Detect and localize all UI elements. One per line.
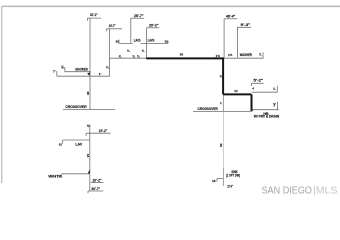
svg-text:¾: ¾ [142, 49, 145, 53]
svg-text:¾: ¾ [127, 49, 130, 53]
svg-text:t.: t. [259, 52, 261, 56]
dim 10'-2" upper line [86, 133, 111, 136]
svg-text:S|: S| [59, 143, 62, 147]
svg-text:9'-3": 9'-3" [241, 23, 251, 27]
dim 30'-7" bottom line [88, 191, 103, 193]
svg-text:(1 OPT DW): (1 OPT DW) [226, 174, 240, 178]
main thin run [110, 57, 147, 59]
dim 26'-7" line [131, 17, 144, 19]
crossover right line [193, 110, 250, 112]
svg-text:16'-7": 16'-7" [109, 24, 116, 28]
vertical drop x=146.4 [145, 28, 147, 58]
svg-text:S|: S| [165, 39, 168, 43]
dim 20'-2" line [146, 27, 159, 29]
arrow water heater junction [88, 169, 90, 173]
svg-text:¾: ¾ [137, 54, 140, 58]
sink branch line [217, 178, 223, 181]
svg-text:SHOWER: SHOWER [75, 67, 88, 71]
svg-text:1: 1 [220, 101, 222, 105]
lav branch left tick [118, 40, 120, 44]
svg-text:48: 48 [86, 91, 90, 95]
svg-text:10'-2": 10'-2" [99, 129, 108, 133]
svg-text:LAVS: LAVS [148, 39, 155, 43]
lav lower branch line [63, 139, 90, 141]
thick main vertical [222, 58, 224, 94]
svg-text:1½: 1½ [216, 54, 221, 58]
svg-text:7': 7' [53, 70, 56, 74]
dim 48'-4" line [224, 18, 237, 20]
svg-text:48'-4": 48'-4" [226, 15, 236, 19]
dim 32'-2" line [88, 18, 102, 21]
svg-text:WASHER: WASHER [240, 53, 253, 57]
crossover left line [63, 109, 115, 111]
bottom-left riser top bar [88, 124, 91, 126]
svg-text:t.: t. [273, 87, 275, 91]
svg-text:SAN DIEGO: SAN DIEGO [262, 186, 313, 197]
7ft run left tick [56, 71, 58, 76]
svg-text:50: 50 [180, 52, 184, 56]
svg-text:20'-2": 20'-2" [149, 24, 159, 28]
vertical drop x=224.1 [223, 19, 225, 58]
svg-text:26'-7": 26'-7" [134, 14, 144, 18]
hose bib 2 branch line [252, 109, 279, 111]
svg-text:12'-6": 12'-6" [227, 185, 233, 189]
water heater branch left tick [61, 174, 63, 178]
svg-text:¾: ¾ [220, 74, 223, 78]
thick end vertical [251, 94, 253, 111]
svg-text:¾: ¾ [106, 66, 109, 70]
svg-text:S|: S| [116, 39, 119, 43]
washer branch end tick [262, 52, 264, 58]
vertical drop x=237.5 [237, 27, 239, 57]
dim 5'-2" line [251, 83, 263, 86]
sink drop faint pipe [222, 112, 224, 168]
svg-text:18: 18 [212, 179, 216, 183]
svg-text:50: 50 [219, 144, 223, 148]
sink drop upper pipe [222, 95, 224, 112]
svg-text:10'-2": 10'-2" [92, 179, 102, 183]
vertical drop x=130.8 [130, 18, 132, 43]
svg-text:t.: t. [87, 124, 89, 128]
hose bib 1 end tick [276, 86, 278, 93]
svg-text:1½: 1½ [228, 53, 233, 57]
svg-text:18: 18 [86, 154, 90, 158]
svg-text:CROSSOVER: CROSSOVER [197, 107, 218, 111]
sink drop lower pipe [222, 168, 224, 186]
arrow shower junction [87, 72, 90, 76]
dim 16'-7" line [107, 29, 123, 31]
frame top border [2, 5, 340, 7]
hose bib 1 branch line [252, 91, 278, 93]
bottom-left riser pipe [89, 125, 91, 191]
washer branch line [224, 57, 263, 59]
svg-text:CROSSOVER: CROSSOVER [65, 105, 87, 109]
svg-text:LAVS: LAVS [134, 39, 141, 43]
svg-text:1': 1' [99, 72, 102, 76]
halo under LAV label [133, 42, 141, 44]
svg-text:30'-7": 30'-7" [91, 187, 100, 191]
vertical pipe x=109.5 [109, 29, 111, 77]
lav branch line [119, 42, 168, 44]
hose bib 2 end tick [277, 102, 279, 110]
svg-text:18: 18 [60, 65, 64, 69]
svg-text:W/ PRV & DRAIN: W/ PRV & DRAIN [254, 114, 280, 118]
svg-text:|MLS: |MLS [313, 186, 338, 197]
lav lower branch left tick [62, 140, 64, 144]
water heater branch line [62, 173, 90, 175]
svg-text:¾: ¾ [119, 55, 122, 59]
lav branch right tick [167, 41, 169, 44]
shower branch line [65, 71, 91, 73]
svg-text:LAV: LAV [75, 142, 83, 146]
7ft run line [57, 75, 110, 77]
svg-text:¾: ¾ [132, 54, 135, 58]
frame left border [1, 6, 3, 183]
riser pipe left (x=90) [89, 18, 91, 110]
svg-text:4: 4 [252, 86, 254, 90]
shower branch left tick [64, 67, 66, 72]
thick main run horizontal [146, 57, 224, 59]
svg-text:14: 14 [234, 89, 238, 93]
thick jog horizontal [223, 93, 251, 95]
svg-text:W/HTR: W/HTR [48, 174, 62, 178]
svg-text:5'-2": 5'-2" [254, 79, 264, 83]
dim 10'-2" bottom line [91, 181, 104, 183]
dim 9'-3" line [238, 27, 252, 30]
svg-text:32'-2": 32'-2" [90, 13, 98, 17]
